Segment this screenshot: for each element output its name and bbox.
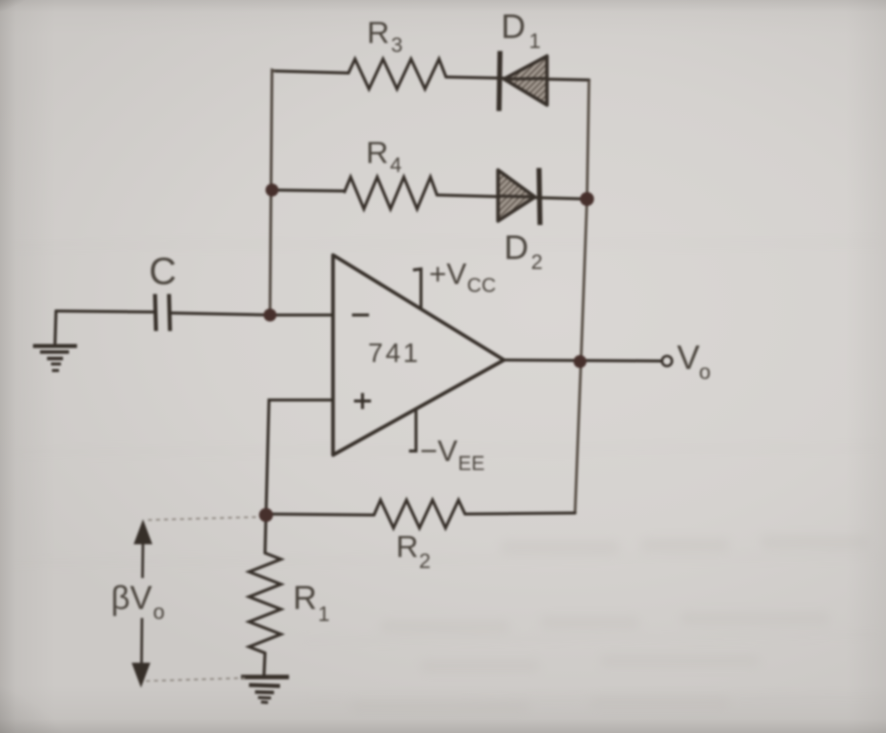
svg-text:D: D [501,8,526,46]
plus sign (non-inverting input) [354,393,371,409]
label D2 [504,229,543,274]
svg-text:EE: EE [458,453,485,475]
wire output [504,360,661,361]
diode D2 [498,168,540,225]
label R4 [366,135,402,177]
svg-text:V: V [677,339,700,377]
wire top R3 row [275,71,348,73]
diode D1 [499,51,547,111]
output terminal circle [662,356,672,366]
svg-text:2: 2 [419,550,431,573]
ground (bottom, under R1) [241,677,289,703]
svg-text:4: 4 [390,154,402,177]
resistor R1 [249,553,281,653]
svg-text:βV: βV [111,579,152,616]
svg-text:2: 2 [531,251,543,274]
label D1 [501,8,541,53]
label -Vee [420,435,485,475]
svg-text:3: 3 [391,34,403,57]
svg-text:C: C [149,251,176,293]
resistor R4 [344,177,437,209]
dashed line bottom (ground to arrow) [146,678,245,681]
wire R4 row [272,190,344,191]
ground (left) [33,346,77,371]
label Vo [677,339,711,384]
svg-text:CC: CC [467,275,496,297]
wire non-inverting input [266,400,333,514]
label +Vcc [429,258,496,297]
wire left ground drop [55,311,56,343]
svg-text:R: R [366,135,388,170]
dashed line top (junction to arrow) [148,517,258,520]
-Vee pin [409,410,416,451]
label R1 [293,579,330,626]
label beta-Vo [111,579,165,624]
svg-text:+V: +V [429,258,467,291]
resistor R3 [348,59,446,89]
label R3 [367,15,403,57]
svg-text:o: o [699,361,711,384]
svg-text:741: 741 [368,338,421,368]
minus sign (inverting input) [352,314,369,317]
wire R1 leads [265,514,266,553]
svg-text:R: R [367,15,389,50]
svg-text:D: D [504,229,529,267]
beta-Vo measurement arrow [134,523,151,684]
wire R2 row [266,514,374,515]
+Vcc pin [413,269,421,308]
resistor R2 [374,500,465,528]
wire right rail [575,80,589,513]
svg-text:R: R [396,529,418,564]
node junction dots [259,184,594,523]
svg-text:1: 1 [529,30,541,53]
capacitor C [155,294,170,331]
svg-text:1: 1 [318,603,330,626]
label R2 [396,529,431,573]
svg-text:R: R [293,579,317,616]
svg-text:o: o [153,601,165,624]
svg-text:−V: −V [420,435,458,468]
wire inverting input row [56,311,153,312]
op-amp U1 741 [333,255,504,455]
wire left rail [270,70,275,315]
